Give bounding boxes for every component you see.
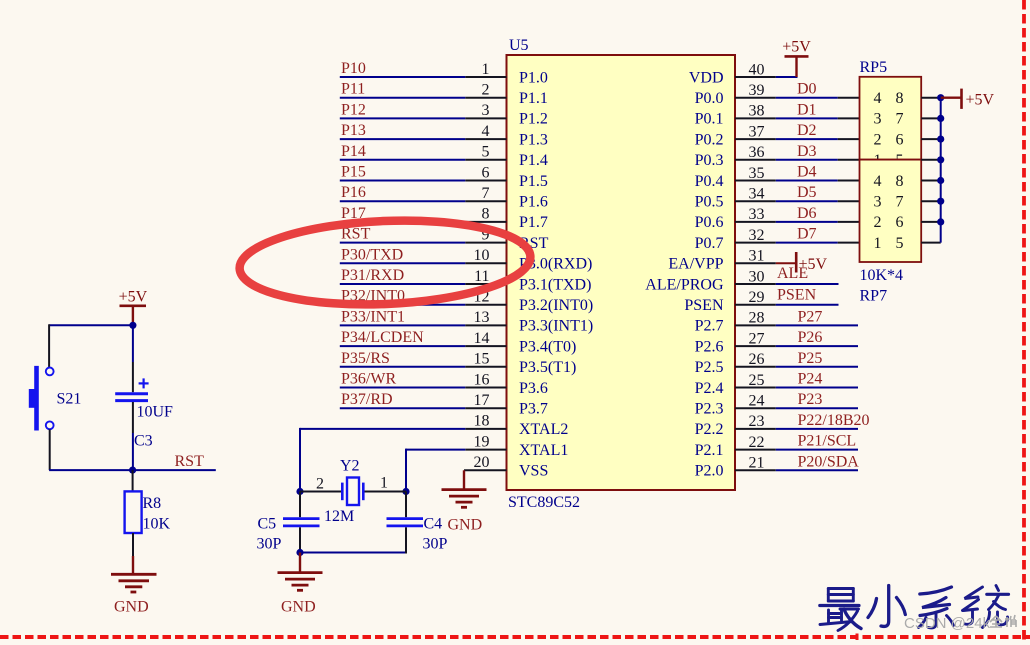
net label P26 bbox=[798, 329, 823, 346]
wire net P11 to pin 2 bbox=[340, 97, 507, 99]
net label RST bbox=[175, 453, 205, 470]
svg-text:P34/LCDEN: P34/LCDEN bbox=[341, 329, 424, 346]
svg-text:P2.1: P2.1 bbox=[695, 442, 724, 459]
net label D7 bbox=[797, 226, 817, 243]
wire net P25 pin 26 bbox=[735, 366, 858, 368]
crystal Y2 bbox=[342, 478, 363, 506]
wire net P26 pin 27 bbox=[735, 345, 858, 347]
Y2 pin number 2 bbox=[316, 476, 324, 493]
wire net D1 pin 38 to RP5 bbox=[735, 117, 860, 119]
C4 value label 30P bbox=[423, 536, 448, 553]
pin 18 name XTAL2 bbox=[519, 421, 568, 438]
svg-text:10K*4: 10K*4 bbox=[860, 267, 904, 284]
svg-text:GND: GND bbox=[448, 517, 483, 534]
svg-text:21: 21 bbox=[749, 455, 765, 472]
pin 11 name P3.1(TXD) bbox=[519, 276, 591, 293]
Y2 designator bbox=[340, 458, 360, 475]
wire net P31/RXD to pin 11 bbox=[340, 283, 507, 285]
title text ZUI (最) bbox=[820, 589, 861, 631]
svg-text:D6: D6 bbox=[797, 205, 817, 222]
net label P25 bbox=[798, 350, 823, 367]
svg-text:19: 19 bbox=[474, 433, 490, 450]
pin 1 name P1.0 bbox=[519, 69, 548, 86]
wire switch to RST net bbox=[49, 429, 51, 470]
wire net P21/SCL pin 22 bbox=[735, 449, 858, 451]
svg-text:D5: D5 bbox=[797, 184, 817, 201]
wire net P33/INT1 to pin 13 bbox=[340, 324, 507, 326]
svg-text:D1: D1 bbox=[797, 101, 817, 118]
red annotation ellipse around RST/P30/P31 bbox=[238, 215, 532, 310]
svg-text:8: 8 bbox=[896, 90, 904, 107]
GND label at crystal bbox=[281, 599, 316, 616]
svg-text:1: 1 bbox=[380, 475, 388, 492]
pin 4 number bbox=[482, 123, 490, 140]
wire net P17 to pin 8 bbox=[340, 221, 507, 223]
wire crystal right bbox=[364, 491, 406, 493]
svg-text:2: 2 bbox=[874, 131, 882, 148]
wire net D7 pin 32 to RP5 bbox=[735, 242, 860, 244]
net label P11 bbox=[341, 81, 365, 98]
C3 designator bbox=[134, 433, 153, 450]
svg-text:P25: P25 bbox=[798, 350, 823, 367]
svg-text:D4: D4 bbox=[797, 164, 817, 181]
watermark CSDN bbox=[904, 615, 1016, 632]
title text XIAO (小) bbox=[868, 586, 905, 627]
pin 14 name P3.4(T0) bbox=[519, 338, 576, 355]
pin 32 name P0.7 bbox=[695, 235, 724, 252]
svg-text:24: 24 bbox=[749, 393, 765, 410]
RP5 pin numbers 2 6 bbox=[874, 131, 904, 148]
C5 value label 30P bbox=[257, 536, 282, 553]
svg-text:EA/VPP: EA/VPP bbox=[668, 256, 723, 273]
svg-text:25: 25 bbox=[749, 372, 765, 389]
svg-text:ALE/PROG: ALE/PROG bbox=[645, 276, 724, 293]
wire net P30/TXD to pin 10 bbox=[340, 262, 507, 264]
svg-text:P2.4: P2.4 bbox=[695, 380, 724, 397]
svg-text:11: 11 bbox=[474, 268, 489, 285]
capacitor C4 bbox=[387, 519, 424, 526]
svg-text:+5V: +5V bbox=[966, 92, 995, 109]
svg-text:C5: C5 bbox=[258, 516, 277, 533]
svg-text:12M: 12M bbox=[324, 508, 354, 525]
net label P27 bbox=[798, 308, 823, 325]
svg-text:CSDN @24k: CSDN @24k bbox=[904, 615, 991, 632]
net label P16 bbox=[341, 184, 366, 201]
+5V power symbol at RP bus bbox=[941, 89, 995, 109]
wire +5V node to switch branch bbox=[49, 324, 133, 367]
wire XTAL2 node to C5 bbox=[299, 492, 301, 518]
+5V power symbol at EA/VPP bbox=[796, 252, 827, 273]
wire net P10 to pin 1 bbox=[340, 76, 507, 78]
pin 27 name P2.6 bbox=[695, 338, 724, 355]
svg-text:P0.4: P0.4 bbox=[695, 173, 724, 190]
pin 1 number bbox=[482, 61, 490, 78]
svg-text:4: 4 bbox=[874, 90, 882, 107]
svg-text:3: 3 bbox=[874, 111, 882, 128]
svg-text:P3.5(T1): P3.5(T1) bbox=[519, 359, 576, 376]
net label D3 bbox=[797, 143, 817, 160]
wire net P23 pin 24 bbox=[735, 407, 858, 409]
pin 22 name P2.1 bbox=[695, 442, 724, 459]
pin 31 number bbox=[749, 248, 765, 265]
svg-text:P31/RXD: P31/RXD bbox=[341, 267, 404, 284]
svg-text:P2.0: P2.0 bbox=[695, 463, 724, 480]
svg-text:P12: P12 bbox=[341, 101, 366, 118]
wire net P16 to pin 7 bbox=[340, 200, 507, 202]
pin 36 name P0.3 bbox=[695, 152, 724, 169]
svg-text:39: 39 bbox=[749, 82, 765, 99]
pin 25 number bbox=[749, 372, 765, 389]
svg-text:22: 22 bbox=[749, 434, 765, 451]
pin 18 number bbox=[474, 413, 490, 430]
pin 39 number bbox=[749, 82, 765, 99]
net label P21/SCL bbox=[798, 433, 857, 450]
pin 3 number bbox=[482, 102, 490, 119]
S21 designator bbox=[57, 391, 82, 408]
pin 23 number bbox=[749, 413, 765, 430]
pin 34 number bbox=[749, 186, 765, 203]
pin 37 number bbox=[749, 123, 765, 140]
pin 4 name P1.3 bbox=[519, 131, 548, 148]
svg-text:P0.0: P0.0 bbox=[695, 90, 724, 107]
svg-text:VDD: VDD bbox=[689, 69, 724, 86]
svg-text:P0.6: P0.6 bbox=[695, 214, 724, 231]
RP5 designator bbox=[860, 59, 888, 76]
sheet border right dashed line bbox=[1022, 0, 1026, 640]
net label D5 bbox=[797, 184, 817, 201]
pin 38 name P0.1 bbox=[695, 111, 724, 128]
svg-text:P1.6: P1.6 bbox=[519, 194, 548, 211]
wire net P27 pin 28 bbox=[735, 324, 858, 326]
pin 24 number bbox=[749, 393, 765, 410]
pin 27 number bbox=[749, 330, 765, 347]
wire RP5/RP7 common bus bbox=[921, 98, 941, 243]
svg-text:10UF: 10UF bbox=[137, 404, 174, 421]
pin 31 name EA/VPP bbox=[668, 256, 723, 273]
svg-text:P1.1: P1.1 bbox=[519, 90, 548, 107]
net label D6 bbox=[797, 205, 817, 222]
pin 12 name P3.2(INT0) bbox=[519, 297, 593, 314]
svg-text:30P: 30P bbox=[423, 536, 448, 553]
pin 15 name P3.5(T1) bbox=[519, 359, 576, 376]
RP7 pin numbers 1 5 bbox=[874, 235, 904, 252]
svg-text:RP7: RP7 bbox=[860, 288, 888, 305]
svg-text:7: 7 bbox=[896, 194, 904, 211]
pin 13 number bbox=[474, 309, 490, 326]
pin 20 number bbox=[474, 454, 490, 471]
net label P32/INT0 bbox=[341, 288, 405, 305]
wire C5 to ground node bbox=[299, 527, 301, 552]
pin 13 name P3.3(INT1) bbox=[519, 318, 593, 335]
svg-text:C3: C3 bbox=[134, 433, 153, 450]
pin 30 number bbox=[749, 268, 765, 285]
svg-text:XTAL2: XTAL2 bbox=[519, 421, 568, 438]
net label P17 bbox=[341, 205, 366, 222]
+5V power symbol at VDD bbox=[782, 39, 811, 78]
wire RST node to R8 bbox=[132, 470, 134, 491]
RP5 pin numbers 1 5 bbox=[874, 152, 904, 169]
pin 36 number bbox=[749, 144, 765, 161]
svg-text:3: 3 bbox=[482, 102, 490, 119]
svg-text:PSEN: PSEN bbox=[684, 297, 724, 314]
pin 28 name P2.7 bbox=[695, 318, 724, 335]
pin 20 name VSS bbox=[519, 463, 548, 480]
pin 9 number bbox=[482, 226, 490, 243]
svg-text:GND: GND bbox=[114, 599, 149, 616]
pin 35 number bbox=[749, 165, 765, 182]
resistor R8 bbox=[125, 491, 142, 533]
wire net P35/RS to pin 15 bbox=[340, 366, 507, 368]
pin 19 number bbox=[474, 433, 490, 450]
svg-text:26: 26 bbox=[749, 351, 765, 368]
svg-text:S21: S21 bbox=[57, 391, 82, 408]
title text XI (系) bbox=[919, 587, 954, 628]
RP value label 10K*4 bbox=[860, 267, 904, 284]
svg-text:P2.5: P2.5 bbox=[695, 359, 724, 376]
pin 21 name P2.0 bbox=[695, 463, 724, 480]
svg-text:30P: 30P bbox=[257, 536, 282, 553]
pin 10 name P3.0(RXD) bbox=[519, 256, 592, 273]
wire net D2 pin 37 to RP5 bbox=[735, 138, 860, 140]
svg-text:1: 1 bbox=[874, 235, 882, 252]
net label P30/TXD bbox=[341, 246, 403, 263]
svg-text:30: 30 bbox=[749, 268, 765, 285]
wire net RST to pin 9 bbox=[340, 242, 507, 244]
net label P10 bbox=[341, 60, 366, 77]
junction node crystal ground bbox=[296, 549, 303, 556]
svg-text:8: 8 bbox=[896, 173, 904, 190]
pin 12 number bbox=[474, 289, 490, 306]
svg-text:P33/INT1: P33/INT1 bbox=[341, 308, 405, 325]
pin 39 name P0.0 bbox=[695, 90, 724, 107]
svg-text:+5V: +5V bbox=[119, 289, 148, 306]
svg-text:5: 5 bbox=[896, 235, 904, 252]
svg-text:P36/WR: P36/WR bbox=[341, 371, 396, 388]
svg-text:P0.5: P0.5 bbox=[695, 194, 724, 211]
wire C3 to RST node bbox=[132, 402, 134, 470]
pin 26 number bbox=[749, 351, 765, 368]
svg-text:34: 34 bbox=[749, 186, 765, 203]
svg-text:27: 27 bbox=[749, 330, 765, 347]
svg-text:P2.2: P2.2 bbox=[695, 421, 724, 438]
pin 16 name P3.6 bbox=[519, 380, 548, 397]
R8 value label 10K bbox=[143, 516, 171, 533]
svg-text:P37/RD: P37/RD bbox=[341, 391, 393, 408]
pin 29 name PSEN bbox=[684, 297, 724, 314]
net label P31/RXD bbox=[341, 267, 404, 284]
junction dots on RP bus bbox=[937, 94, 944, 225]
pin 2 number bbox=[482, 82, 490, 99]
wire net D6 pin 33 to RP5 bbox=[735, 221, 860, 223]
wire +5V node to C3 bbox=[132, 325, 134, 392]
svg-text:10: 10 bbox=[474, 247, 490, 264]
pin 24 name P2.3 bbox=[695, 401, 724, 418]
svg-text:6: 6 bbox=[482, 164, 490, 181]
ground symbol at VSS bbox=[442, 470, 487, 507]
svg-text:1: 1 bbox=[482, 61, 490, 78]
wire net P20/SDA pin 21 bbox=[735, 469, 858, 471]
GND label at VSS bbox=[448, 517, 483, 534]
svg-text:P30/TXD: P30/TXD bbox=[341, 246, 403, 263]
pin 8 number bbox=[482, 206, 490, 223]
net label ALE bbox=[777, 265, 808, 282]
wire crystal ground bus bbox=[300, 552, 406, 554]
wire R8 to ground bbox=[132, 533, 134, 574]
svg-text:D3: D3 bbox=[797, 143, 817, 160]
svg-text:C4: C4 bbox=[424, 516, 443, 533]
svg-text:38: 38 bbox=[749, 103, 765, 120]
GND label at R8 bbox=[114, 599, 149, 616]
net label P20/SDA bbox=[798, 453, 860, 470]
wire net P32/INT0 to pin 12 bbox=[340, 304, 507, 306]
IC U5 STC89C52 body bbox=[507, 55, 736, 490]
net label RST bbox=[341, 226, 371, 243]
wire net P34/LCDEN to pin 14 bbox=[340, 345, 507, 347]
C4 designator bbox=[424, 516, 443, 533]
svg-text:P2.3: P2.3 bbox=[695, 401, 724, 418]
svg-text:40: 40 bbox=[749, 61, 765, 78]
ground symbol at crystal bbox=[278, 553, 323, 591]
RP7 pin numbers 3 7 bbox=[874, 194, 904, 211]
svg-text:D7: D7 bbox=[797, 226, 817, 243]
pin 19 name XTAL1 bbox=[519, 442, 568, 459]
svg-text:U5: U5 bbox=[509, 37, 529, 54]
svg-text:P10: P10 bbox=[341, 60, 366, 77]
net label P15 bbox=[341, 164, 366, 181]
wire net P14 to pin 5 bbox=[340, 159, 507, 161]
resistor pack RP7 body bbox=[860, 160, 922, 262]
wire net P22/18B20 pin 23 bbox=[735, 428, 858, 430]
wire net D4 pin 35 to RP5 bbox=[735, 180, 860, 182]
svg-text:23: 23 bbox=[749, 413, 765, 430]
pin 40 name VDD bbox=[689, 69, 724, 86]
wire net P15 to pin 6 bbox=[340, 180, 507, 182]
U5 part number STC89C52 bbox=[508, 494, 580, 511]
pin 34 name P0.5 bbox=[695, 194, 724, 211]
pin 8 name P1.7 bbox=[519, 214, 548, 231]
pin 16 number bbox=[474, 371, 490, 388]
pin 38 number bbox=[749, 103, 765, 120]
capacitor C3 polarity plus sign bbox=[139, 378, 149, 388]
svg-text:P2.6: P2.6 bbox=[695, 338, 724, 355]
svg-text:4: 4 bbox=[482, 123, 490, 140]
svg-text:+5V: +5V bbox=[799, 256, 828, 273]
svg-text:P3.4(T0): P3.4(T0) bbox=[519, 338, 576, 355]
pin 33 number bbox=[749, 206, 765, 223]
svg-text:P21/SCL: P21/SCL bbox=[798, 433, 857, 450]
junction node RST bbox=[129, 467, 136, 474]
pin 21 number bbox=[749, 455, 765, 472]
junction node XTAL2 bbox=[296, 488, 303, 495]
svg-text:P2.7: P2.7 bbox=[695, 318, 724, 335]
svg-text:17: 17 bbox=[474, 392, 490, 409]
wire net P24 pin 25 bbox=[735, 387, 858, 389]
+5V power symbol at reset circuit bbox=[119, 289, 148, 326]
svg-text:29: 29 bbox=[749, 289, 765, 306]
wire C4 to ground bus bbox=[405, 527, 407, 553]
pin 5 name P1.4 bbox=[519, 152, 548, 169]
pin 17 number bbox=[474, 392, 490, 409]
svg-text:RST: RST bbox=[175, 453, 205, 470]
Y2 value label 12M bbox=[324, 508, 354, 525]
junction node at +5V bbox=[129, 322, 136, 329]
svg-text:16: 16 bbox=[474, 371, 490, 388]
svg-text:P1.5: P1.5 bbox=[519, 173, 548, 190]
svg-text:GND: GND bbox=[281, 599, 316, 616]
pin 28 number bbox=[749, 310, 765, 327]
svg-text:P22/18B20: P22/18B20 bbox=[798, 412, 870, 429]
wire EA/VPP pin 31 to +5V bbox=[735, 262, 796, 264]
svg-text:P1.2: P1.2 bbox=[519, 111, 548, 128]
pin 7 number bbox=[482, 185, 490, 202]
RP7 pin numbers 2 6 bbox=[874, 214, 904, 231]
net label D0 bbox=[797, 81, 817, 98]
svg-text:RP5: RP5 bbox=[860, 59, 888, 76]
svg-text:+5V: +5V bbox=[782, 39, 811, 56]
svg-text:6: 6 bbox=[896, 131, 904, 148]
pin 22 number bbox=[749, 434, 765, 451]
wire VSS pin 20 bbox=[464, 469, 507, 471]
wire net P37/RD to pin 17 bbox=[340, 407, 507, 409]
net label D4 bbox=[797, 164, 817, 181]
wire XTAL2 to crystal bbox=[300, 428, 507, 492]
svg-text:P15: P15 bbox=[341, 164, 366, 181]
pin 32 number bbox=[749, 227, 765, 244]
svg-text:10K: 10K bbox=[143, 516, 171, 533]
svg-text:P20/SDA: P20/SDA bbox=[798, 453, 860, 470]
sheet border bottom dashed line bbox=[0, 635, 1030, 639]
svg-text:STC89C52: STC89C52 bbox=[508, 494, 580, 511]
svg-text:P35/RS: P35/RS bbox=[341, 350, 390, 367]
svg-text:33: 33 bbox=[749, 206, 765, 223]
svg-text:P24: P24 bbox=[798, 371, 823, 388]
svg-text:36: 36 bbox=[749, 144, 765, 161]
svg-text:7: 7 bbox=[896, 111, 904, 128]
svg-text:P23: P23 bbox=[798, 391, 823, 408]
net label P33/INT1 bbox=[341, 308, 405, 325]
svg-text:XTAL1: XTAL1 bbox=[519, 442, 568, 459]
svg-text:2: 2 bbox=[482, 82, 490, 99]
pin 23 name P2.2 bbox=[695, 421, 724, 438]
RP5 pin numbers 4 8 bbox=[874, 90, 904, 107]
RP5 pin numbers 3 7 bbox=[874, 111, 904, 128]
net label P34/LCDEN bbox=[341, 329, 424, 346]
svg-text:7: 7 bbox=[482, 185, 490, 202]
wire RST net bbox=[49, 469, 216, 471]
svg-text:P3.2(INT0): P3.2(INT0) bbox=[519, 297, 593, 314]
svg-text:15: 15 bbox=[474, 351, 490, 368]
svg-text:4: 4 bbox=[874, 173, 882, 190]
pin 25 name P2.4 bbox=[695, 380, 724, 397]
pin 30 name ALE/PROG bbox=[645, 276, 724, 293]
svg-text:3: 3 bbox=[874, 194, 882, 211]
svg-text:P0.3: P0.3 bbox=[695, 152, 724, 169]
wire net D3 pin 36 to RP5 bbox=[735, 159, 860, 161]
R8 designator bbox=[143, 495, 162, 512]
wire net D0 pin 39 to RP5 bbox=[735, 97, 860, 99]
pin 3 name P1.2 bbox=[519, 111, 548, 128]
pin 14 number bbox=[474, 330, 490, 347]
svg-text:P3.1(TXD): P3.1(TXD) bbox=[519, 276, 591, 293]
junction node XTAL1 bbox=[402, 488, 409, 495]
net label P13 bbox=[341, 122, 366, 139]
pin 26 name P2.5 bbox=[695, 359, 724, 376]
svg-text:37: 37 bbox=[749, 123, 765, 140]
pin 9 name RST bbox=[519, 235, 549, 252]
pin 37 name P0.2 bbox=[695, 131, 724, 148]
svg-text:6: 6 bbox=[896, 214, 904, 231]
svg-text:P3.6: P3.6 bbox=[519, 380, 548, 397]
